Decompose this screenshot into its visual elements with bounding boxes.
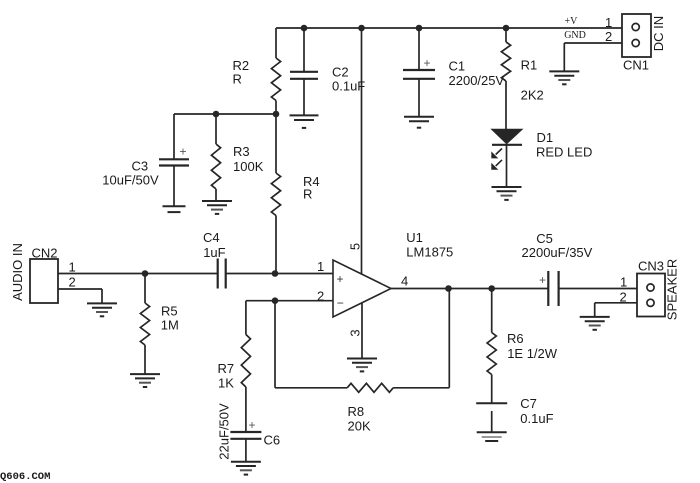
svg-text:C2: C2	[332, 64, 349, 79]
svg-text:20K: 20K	[348, 418, 371, 433]
svg-text:2: 2	[69, 274, 76, 289]
svg-text:RED LED: RED LED	[536, 145, 592, 160]
svg-text:CN2: CN2	[32, 245, 58, 260]
svg-text:R3: R3	[233, 144, 250, 159]
svg-text:R: R	[233, 71, 242, 86]
svg-text:1: 1	[317, 259, 324, 274]
svg-text:LM1875: LM1875	[406, 244, 453, 259]
svg-text:C7: C7	[520, 396, 537, 411]
svg-text:3: 3	[348, 329, 363, 336]
svg-text:Q606.COM: Q606.COM	[0, 471, 50, 483]
svg-text:SPEAKER: SPEAKER	[665, 259, 680, 320]
svg-text:R6: R6	[507, 331, 524, 346]
svg-text:DC IN: DC IN	[651, 16, 666, 51]
svg-text:CN3: CN3	[638, 259, 664, 274]
svg-text:U1: U1	[406, 230, 423, 245]
svg-text:1E 1/2W: 1E 1/2W	[507, 346, 558, 361]
svg-text:+: +	[180, 145, 187, 159]
svg-text:0.1uF: 0.1uF	[332, 78, 365, 93]
svg-text:GND: GND	[564, 30, 586, 41]
svg-text:2K2: 2K2	[521, 87, 544, 102]
svg-text:0.1uF: 0.1uF	[520, 411, 553, 426]
svg-text:AUDIO IN: AUDIO IN	[10, 243, 25, 301]
svg-text:D1: D1	[537, 130, 554, 145]
svg-text:+: +	[424, 56, 431, 70]
svg-text:1uF: 1uF	[203, 245, 225, 260]
svg-text:2: 2	[605, 29, 612, 44]
svg-text:CN1: CN1	[623, 57, 649, 72]
svg-text:C4: C4	[203, 230, 220, 245]
svg-text:R7: R7	[218, 361, 235, 376]
svg-text:10uF/50V: 10uF/50V	[102, 172, 159, 187]
svg-text:1: 1	[620, 274, 627, 289]
svg-text:C6: C6	[264, 432, 281, 447]
svg-text:1M: 1M	[161, 317, 179, 332]
svg-text:100K: 100K	[233, 159, 264, 174]
svg-text:R5: R5	[161, 303, 178, 318]
svg-text:+: +	[249, 418, 256, 432]
svg-text:2200uF/35V: 2200uF/35V	[522, 245, 593, 260]
svg-text:22uF/50V: 22uF/50V	[217, 403, 232, 460]
svg-text:R1: R1	[521, 57, 538, 72]
svg-text:+: +	[337, 272, 344, 286]
svg-text:R8: R8	[348, 404, 365, 419]
svg-text:2: 2	[317, 288, 324, 303]
svg-text:4: 4	[401, 273, 408, 288]
svg-text:2200/25V: 2200/25V	[449, 73, 505, 88]
svg-text:1: 1	[69, 259, 76, 274]
svg-text:+: +	[539, 273, 546, 287]
svg-text:C1: C1	[449, 58, 466, 73]
svg-text:1: 1	[605, 15, 612, 30]
svg-text:2: 2	[620, 289, 627, 304]
svg-text:R: R	[303, 186, 312, 201]
svg-text:+V: +V	[565, 16, 579, 27]
svg-text:5: 5	[348, 243, 363, 250]
svg-text:−: −	[337, 296, 344, 310]
svg-text:1K: 1K	[218, 376, 234, 391]
